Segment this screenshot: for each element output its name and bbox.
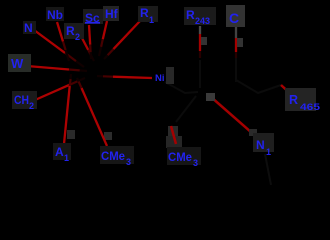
wire spoke A1 bbox=[64, 74, 75, 144]
svg-text:CMe: CMe bbox=[168, 152, 192, 164]
wire spoke N bbox=[34, 30, 84, 67]
node CMe3 left bbox=[100, 146, 134, 167]
wire faint skeleton cluster down-left bbox=[176, 96, 196, 122]
node gray box beside CMe3b stub bbox=[168, 126, 178, 136]
wire faint skeleton cluster verticals lower bbox=[199, 60, 201, 88]
wire spoke R2s bbox=[82, 38, 94, 61]
node gray box at N1 line end bbox=[249, 129, 257, 136]
node R465 bbox=[285, 88, 320, 112]
svg-text:Hf: Hf bbox=[105, 7, 119, 21]
wire spoke CMe3a bbox=[77, 78, 112, 146]
wire spoke Nb bbox=[57, 22, 69, 61]
svg-text:2: 2 bbox=[29, 101, 34, 111]
node CMe3 right bbox=[167, 147, 201, 168]
svg-text:A: A bbox=[55, 145, 64, 159]
svg-text:N: N bbox=[24, 21, 33, 35]
wire vertical to R243 bbox=[200, 26, 207, 58]
wire spoke W bbox=[27, 66, 87, 71]
svg-text:465: 465 bbox=[300, 102, 320, 112]
svg-text:1: 1 bbox=[149, 15, 154, 25]
wire spoke R1 bbox=[104, 21, 140, 59]
node Ni small bbox=[155, 67, 174, 84]
node Sc bbox=[83, 9, 103, 25]
svg-text:Nb: Nb bbox=[47, 8, 63, 22]
node Hf bbox=[103, 6, 119, 21]
svg-text:2: 2 bbox=[75, 32, 80, 42]
svg-text:CH: CH bbox=[14, 93, 29, 107]
node C bbox=[226, 5, 245, 27]
svg-text:R: R bbox=[289, 93, 298, 107]
svg-text:1: 1 bbox=[266, 147, 271, 157]
svg-text:3: 3 bbox=[193, 158, 198, 168]
svg-text:W: W bbox=[11, 56, 24, 71]
node R2 bbox=[64, 23, 84, 42]
node Nb bbox=[46, 7, 64, 22]
wire vertical to C bbox=[236, 27, 243, 58]
node R243 bbox=[184, 7, 216, 26]
node N bbox=[23, 21, 36, 35]
svg-text:243: 243 bbox=[195, 16, 210, 26]
svg-text:R: R bbox=[66, 24, 75, 38]
wire cluster to N1 bbox=[211, 97, 252, 133]
node R1 bbox=[138, 6, 158, 25]
wire spoke Sc bbox=[89, 25, 91, 59]
hub dark core bbox=[0, 0, 1, 1]
wire faint skeleton chain right bbox=[236, 80, 281, 93]
wire spoke CH2 bbox=[35, 78, 85, 100]
wire right chain red bbox=[281, 85, 293, 96]
node W bbox=[8, 54, 31, 72]
svg-text:Ni: Ni bbox=[155, 73, 165, 84]
svg-text:R: R bbox=[186, 8, 195, 22]
svg-text:R: R bbox=[140, 6, 149, 20]
wire cluster to CMe3b bbox=[171, 126, 176, 144]
wire spoke Hf bbox=[99, 21, 107, 56]
node CH2 bbox=[12, 91, 37, 111]
wire faint skeleton below N1 bbox=[265, 154, 271, 185]
svg-text:1: 1 bbox=[64, 153, 69, 163]
node N1 bbox=[253, 133, 274, 157]
node A1 bbox=[53, 143, 71, 163]
node gray box at cluster vertex bbox=[206, 93, 215, 101]
svg-text:CMe: CMe bbox=[101, 151, 125, 163]
wire faint skeleton M to cluster bbox=[165, 82, 198, 93]
svg-text:3: 3 bbox=[126, 157, 131, 167]
svg-text:N: N bbox=[256, 138, 265, 152]
wire spoke M bbox=[97, 76, 152, 78]
svg-text:C: C bbox=[229, 10, 239, 26]
